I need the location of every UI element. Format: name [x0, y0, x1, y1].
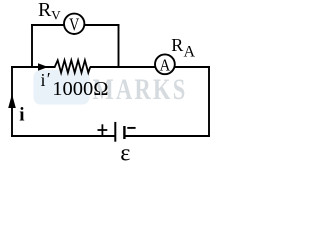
wire: bottom rail right [124, 135, 210, 137]
plus sign [98, 129, 108, 131]
svg-text:V: V [69, 16, 79, 35]
svg-text:1000Ω: 1000Ω [52, 78, 108, 100]
svg-text:R: R [171, 35, 183, 55]
voltmeter circle [64, 14, 84, 34]
wire: main middle rail left of resistor [11, 66, 56, 68]
ammeter circle [155, 54, 175, 74]
svg-text:ε: ε [120, 140, 130, 163]
svg-text:R: R [38, 0, 52, 21]
wire: main middle rail right of resistor [90, 66, 210, 68]
resistor 1000 ohm zigzag [55, 60, 91, 72]
battery short plate (-) [123, 126, 125, 139]
arrowhead current i' [38, 63, 48, 70]
wire: voltmeter branch top left segment [31, 24, 65, 26]
svg-text:i: i [19, 105, 24, 126]
svg-text:V: V [51, 8, 61, 23]
wire: voltmeter branch right vertical [118, 24, 120, 68]
wire: bottom rail left [11, 135, 115, 137]
battery long plate (+) [114, 122, 116, 142]
wire: voltmeter branch top right segment [84, 24, 120, 26]
arrowhead current i [8, 94, 16, 108]
wire: voltmeter branch left vertical [31, 24, 33, 68]
wire: left vertical [11, 66, 13, 137]
wire: right vertical [208, 66, 210, 137]
svg-text:A: A [184, 44, 196, 61]
minus sign [127, 127, 135, 129]
svg-text:A: A [159, 56, 170, 74]
watermark logo box [34, 70, 90, 105]
